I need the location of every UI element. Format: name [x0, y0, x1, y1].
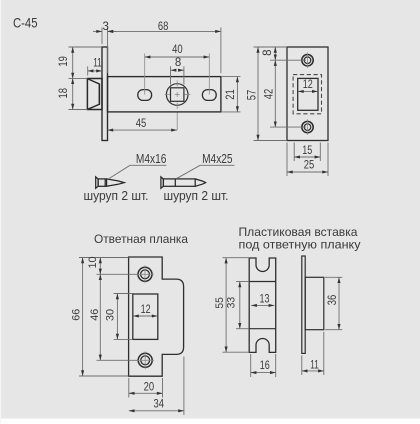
- svg-text:45: 45: [136, 118, 147, 130]
- svg-text:16: 16: [260, 360, 270, 372]
- strike plate outline: [129, 257, 184, 376]
- centerline spindle horizontal: [165, 94, 191, 96]
- dimension 19/18 (left heights): [69, 47, 103, 110]
- leader M4x25: [177, 165, 234, 178]
- dimension 55: [223, 258, 250, 353]
- svg-text:12: 12: [141, 304, 151, 316]
- dimension 33: [236, 282, 249, 329]
- spindle circle: [166, 84, 188, 106]
- svg-text:М4х25: М4х25: [202, 151, 233, 166]
- latch body: [108, 77, 221, 112]
- svg-text:57: 57: [247, 90, 259, 101]
- strike hole top: [138, 267, 152, 281]
- insert side view block: [305, 277, 324, 329]
- hole right (ellipse): [202, 90, 216, 101]
- dashed cutout rect: [293, 75, 321, 114]
- dimension 8 (spindle square): [171, 66, 184, 84]
- svg-text:10: 10: [87, 257, 99, 269]
- dimension 66: [79, 258, 129, 377]
- dimension 11 (bolt protrusion): [88, 66, 102, 75]
- dimensions 10 / 46: [79, 258, 137, 361]
- latch bolt outline: [87, 79, 102, 110]
- latch bolt bevel face: [88, 79, 100, 109]
- svg-text:М4х16: М4х16: [136, 151, 167, 166]
- svg-text:С-45: С-45: [13, 15, 38, 31]
- svg-text:15: 15: [302, 145, 312, 157]
- dimensions 8 / 42 (left of front view): [254, 47, 307, 141]
- svg-text:34: 34: [154, 399, 165, 411]
- svg-text:13: 13: [260, 293, 270, 305]
- faceplate front rect: [287, 47, 328, 141]
- white bottom margin: [0, 419, 420, 424]
- dimension 68 (body length): [108, 28, 221, 74]
- faceplate (side view): [102, 47, 108, 141]
- svg-text:18: 18: [58, 88, 70, 99]
- hole crosshairs: [307, 53, 309, 135]
- svg-text:20: 20: [144, 381, 155, 393]
- dimension 20: [129, 378, 163, 398]
- screw M4x16 body: [96, 177, 125, 188]
- dimension 57 (front plate height): [257, 47, 259, 141]
- screw M4x25 body: [161, 177, 206, 188]
- dimension 21 (body height): [222, 77, 241, 112]
- svg-text:30: 30: [105, 309, 117, 321]
- dimension 11: [302, 332, 324, 375]
- svg-text:33: 33: [225, 297, 237, 309]
- svg-text:под ответную планку: под ответную планку: [239, 238, 361, 252]
- svg-text:шуруп 2 шт.: шуруп 2 шт.: [164, 188, 229, 203]
- svg-text:8: 8: [262, 49, 274, 55]
- strike hole crosshairs: [136, 265, 154, 369]
- strike square hole: [133, 294, 158, 339]
- spindle square: [171, 88, 184, 102]
- dimension 3 (faceplate thickness): [93, 28, 117, 74]
- svg-text:Ответная планка: Ответная планка: [94, 232, 188, 246]
- dimension 13: [251, 304, 274, 306]
- dimension 12 (strike hole width): [133, 315, 157, 317]
- latch opening rect: [298, 78, 318, 110]
- svg-text:11: 11: [93, 57, 102, 69]
- dimension 16: [251, 354, 276, 377]
- hole left (ellipse): [138, 90, 152, 101]
- svg-text:66: 66: [71, 309, 83, 321]
- dimension 15: [294, 143, 320, 162]
- screw hole bottom: [302, 121, 313, 132]
- centerline spindle vertical: [176, 81, 178, 131]
- dimension 45 (backset): [108, 129, 177, 131]
- dimension 30: [114, 294, 133, 340]
- leader M4x16: [110, 165, 167, 178]
- svg-text:11: 11: [310, 359, 319, 371]
- centerline hole left: [144, 54, 146, 95]
- svg-text:шуруп 2 шт.: шуруп 2 шт.: [84, 188, 149, 203]
- svg-text:19: 19: [58, 56, 70, 67]
- dimension 34: [129, 357, 184, 416]
- white left sliver: [0, 0, 1, 424]
- svg-text:55: 55: [214, 297, 226, 309]
- svg-text:21: 21: [225, 89, 237, 100]
- insert mid lines: [249, 282, 276, 329]
- dimension 36: [325, 277, 342, 329]
- svg-text:46: 46: [89, 309, 101, 321]
- svg-text:12: 12: [303, 79, 313, 91]
- dimension 25: [287, 143, 328, 177]
- screw hole top: [302, 55, 313, 66]
- svg-text:36: 36: [327, 295, 339, 306]
- insert side view flange: [302, 256, 305, 353]
- strike hole bottom: [138, 353, 152, 367]
- centerline hole right: [208, 54, 210, 95]
- svg-text:25: 25: [304, 160, 315, 172]
- svg-text:8: 8: [175, 57, 181, 69]
- svg-text:40: 40: [172, 44, 183, 56]
- svg-text:68: 68: [158, 21, 169, 33]
- dimension 40 (hole spacing): [145, 56, 210, 58]
- svg-text:42: 42: [264, 89, 276, 100]
- insert front outline with notches: [249, 258, 276, 352]
- dimension 12 (opening width): [298, 90, 318, 92]
